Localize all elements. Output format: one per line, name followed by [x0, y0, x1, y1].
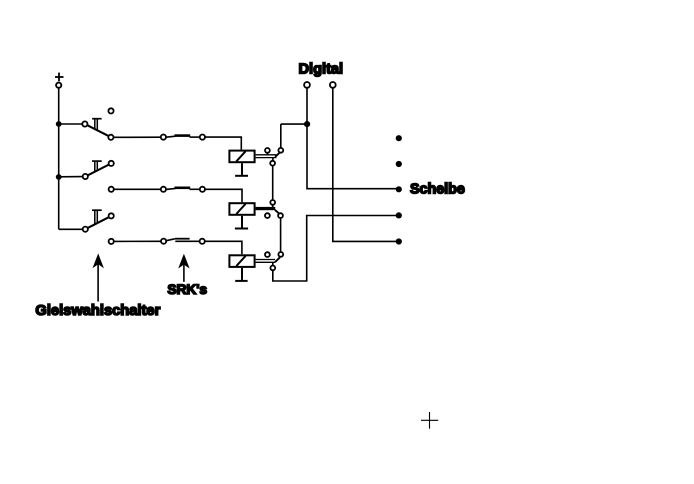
junction Digital-K1	[304, 121, 310, 127]
wire Digital right vertical to bottom row	[333, 88, 399, 242]
wire bus to switch S2	[59, 176, 83, 178]
ground K3	[235, 268, 247, 281]
wire bus to switch S3	[59, 228, 83, 230]
svg-text:Gleiswahlschalter: Gleiswahlschalter	[35, 303, 160, 319]
power terminal	[56, 83, 61, 88]
relay coil K2	[229, 203, 254, 215]
relay contact K3	[256, 252, 284, 270]
wire S1 to SRK1	[114, 136, 161, 138]
svg-text:Digital: Digital	[299, 62, 344, 78]
wire S2 to SRK2	[114, 188, 161, 190]
ground K2	[235, 216, 248, 229]
ground K1	[235, 163, 248, 176]
output dot 4	[396, 212, 402, 218]
wire K3 lower contact to output row 4	[273, 216, 399, 282]
switch S1 (Gleiswahlschalter 1)	[82, 108, 113, 140]
wire SRK2 to relay K2	[205, 189, 242, 202]
wire K1 lower contact to K2 upper contact	[272, 166, 274, 200]
Digital terminal right	[330, 82, 336, 88]
arrow to SRK's	[178, 254, 189, 282]
switch S2 (Gleiswahlschalter 2)	[83, 161, 114, 192]
wire junction to K1 contact	[281, 123, 307, 125]
relay contact K1	[256, 148, 284, 166]
wire bus vertical	[58, 88, 60, 230]
relay coil K1	[229, 151, 254, 163]
arrow to Gleiswahlschalter	[93, 253, 104, 301]
wire K2 lower contact to K3 upper contact	[280, 218, 282, 252]
wire SRK3 to relay K3	[205, 241, 242, 254]
output dot 3 (Scheibe)	[396, 186, 402, 192]
power plus symbol	[55, 73, 64, 82]
crosshair mark	[421, 412, 438, 429]
wire SRK1 to relay K1	[205, 137, 241, 150]
reed contact SRK1	[161, 134, 205, 139]
wire K1 contact to Digital junction	[280, 124, 282, 148]
svg-text:Scheibe: Scheibe	[410, 182, 465, 198]
relay coil K3	[229, 255, 254, 267]
wire bus to switch S1	[59, 123, 82, 125]
relay contact K2	[256, 200, 283, 218]
reed contact SRK2	[161, 187, 205, 192]
svg-text:SRK's: SRK's	[167, 282, 207, 297]
switch S3 (Gleiswahlschalter 3)	[83, 210, 114, 244]
output dot 2	[396, 161, 402, 167]
wire S3 to SRK3	[114, 240, 161, 242]
reed contact SRK3 (open)	[161, 239, 205, 244]
wire Digital left vertical to Scheibe row	[307, 88, 399, 189]
output dot 1	[396, 135, 402, 141]
output dot 5	[396, 238, 402, 244]
Digital terminal left	[304, 82, 310, 88]
junction bus-row1	[56, 121, 62, 127]
junction bus-row2	[56, 174, 62, 180]
